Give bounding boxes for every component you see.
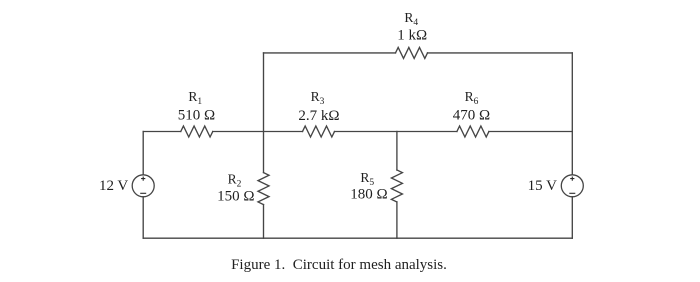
svg-text:470 Ω: 470 Ω — [453, 108, 490, 124]
svg-text:15 V: 15 V — [528, 178, 557, 194]
12V minus sign — [140, 192, 146, 194]
svg-text:R3: R3 — [311, 89, 325, 107]
voltage source 15V circle — [561, 175, 583, 197]
12V plus sign — [141, 177, 145, 181]
svg-text:2.7 kΩ: 2.7 kΩ — [298, 108, 339, 124]
resistor R1 — [181, 126, 213, 137]
wire right vertical lower — [571, 197, 573, 238]
wire branch x=397 upper — [396, 132, 398, 171]
wire left vertical lower — [142, 197, 144, 238]
15V minus sign — [569, 192, 575, 194]
svg-text:12 V: 12 V — [99, 178, 128, 194]
wire middle segment c — [335, 131, 457, 133]
wire middle segment d — [489, 131, 572, 133]
resistor R4 — [396, 47, 428, 58]
svg-text:R2: R2 — [228, 172, 242, 190]
svg-text:R6: R6 — [465, 89, 479, 107]
wire branch x=263 lower — [263, 205, 265, 239]
wire middle segment a — [143, 131, 181, 133]
voltage source 12V circle — [132, 175, 154, 197]
svg-text:1 kΩ: 1 kΩ — [397, 27, 427, 43]
wire branch x=263 upper — [263, 53, 265, 173]
wire middle segment b — [213, 131, 303, 133]
wire branch x=397 lower — [396, 202, 398, 238]
svg-text:150 Ω: 150 Ω — [217, 189, 254, 205]
resistor R3 — [303, 126, 335, 137]
resistor R5 — [391, 170, 402, 202]
svg-text:R1: R1 — [188, 89, 202, 107]
15V plus sign — [570, 177, 574, 181]
resistor R2 — [258, 173, 269, 205]
wire right vertical upper — [571, 53, 573, 175]
wire top left segment — [264, 52, 396, 54]
wire left vertical upper — [142, 132, 144, 175]
svg-text:R5: R5 — [360, 170, 374, 188]
svg-text:510 Ω: 510 Ω — [178, 107, 215, 123]
wire top right segment — [428, 52, 573, 54]
svg-text:Figure 1. Circuit for mesh an: Figure 1. Circuit for mesh analysis. — [231, 257, 447, 273]
svg-text:180 Ω: 180 Ω — [350, 187, 387, 203]
wire bottom — [143, 237, 572, 239]
resistor R6 — [457, 126, 489, 137]
svg-text:R4: R4 — [404, 10, 418, 28]
